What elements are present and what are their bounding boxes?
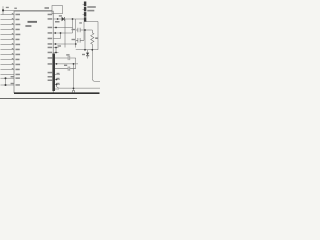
capacitor C8 row 69.5 [55, 67, 76, 71]
vertical rail x=72.5 [72, 19, 74, 33]
connector stubs [55, 75, 60, 90]
label near cap C8 [64, 65, 67, 66]
junction dot x85 row49.8 [84, 49, 86, 51]
connector pin ticks [83, 5, 84, 15]
wire pin 3 [1, 24, 15, 26]
wire vertical x=56 [55, 48, 57, 53]
component box X1 top right [52, 6, 62, 14]
wire pin 4 [1, 29, 15, 31]
vertical x=75.75 lower [75, 58, 77, 69]
wire pin 14 [1, 77, 15, 79]
pin numbers left outside [12, 13, 13, 14]
diode D2 anode stub [87, 50, 89, 53]
IC U1 body [14, 11, 53, 93]
rounded corner exit right [92, 78, 100, 81]
wire row 64 [55, 63, 78, 65]
junction dot row19 pre-diode [57, 18, 59, 20]
label right of top connector line2 [87, 10, 94, 12]
wire under top connector [86, 21, 98, 23]
junction dot row27.5 [55, 27, 57, 29]
wire pin 13 [1, 74, 15, 76]
wire row 49.8 far right [76, 49, 98, 51]
vertical rail x=75.75 [75, 19, 77, 48]
junction dot stub79.5 [56, 79, 58, 81]
wire row 33 [54, 32, 73, 34]
connector stub labels [57, 73, 60, 74]
capacitor C10 row 40.3 [76, 38, 84, 43]
junction dot x92.3 row49.8 [91, 49, 93, 51]
wire pin 12 [1, 69, 15, 71]
label R1 [95, 37, 98, 39]
vertical rail x=65 [64, 19, 66, 48]
pin name blobs left inside [16, 14, 21, 16]
wire top-left vertical stub [2, 6, 4, 14]
label above row 27.5 [55, 21, 60, 23]
junction dot row19 at 72.5 [72, 18, 74, 20]
junction dot row33 [60, 32, 62, 34]
junction dot x73.5 row88.4 [73, 88, 75, 90]
vertical x=84 below connector [83, 22, 85, 30]
wire pin 7 [1, 44, 15, 46]
resistor R1 zigzag [91, 30, 94, 50]
junction dot row52.5 [55, 52, 57, 54]
circuit schematic: RS232 interface around ADM202-style IC with SUB-D connector bars [0, 0, 100, 100]
label D1 [59, 15, 62, 16]
wire pin 6 [1, 39, 15, 41]
wire pin 10 [1, 59, 15, 61]
wire pin 11 [1, 64, 15, 66]
wire pin 5 [1, 34, 15, 36]
wire row 38.5 [54, 38, 61, 40]
junction dot row44b [75, 43, 77, 45]
bottom frame line [0, 98, 77, 100]
capacitor C7 row 58 [55, 56, 76, 60]
label C10 [72, 39, 76, 40]
junction dot x73.5 row63.9 [73, 63, 75, 65]
diode D2 triangle [86, 53, 89, 56]
diode D2 bar [86, 54, 89, 57]
wire row 30 far right [84, 29, 92, 31]
wire row 44 [54, 43, 76, 45]
junction dot row33b [54, 32, 56, 34]
wire pin 1 [1, 14, 15, 16]
terminal circle [72, 90, 74, 92]
wire pin 9 [1, 54, 15, 56]
label ADM202E [28, 21, 38, 23]
label D2 [82, 54, 85, 55]
vertical x=85 link [84, 30, 86, 50]
text blobs [6, 6, 98, 86]
diode D2 cathode stub [87, 56, 89, 58]
vertical right x=98 upper [97, 22, 99, 50]
wire row 52.5 [54, 52, 59, 54]
label C9 [72, 29, 76, 30]
vertical x=92.4 lower [91, 50, 93, 79]
wire top rail [3, 9, 52, 11]
junction dot row64 [56, 63, 58, 65]
junction dot pin15 [5, 84, 7, 86]
pin name blobs right inside [48, 14, 53, 16]
label row 45 [58, 45, 62, 46]
wire vertical link bottom-left [5, 78, 7, 85]
vertical x=84 mid [83, 30, 85, 40]
wire vertical x=60.5 [60, 33, 62, 39]
label near cap C7 [66, 54, 69, 55]
junction dot row47.5 [55, 47, 57, 49]
wire pin 8 [1, 49, 15, 51]
diode D1 triangle [62, 17, 65, 21]
junction dot x85 row30 [84, 29, 86, 31]
ground bus thick line [14, 92, 100, 94]
label small below row19 [79, 22, 82, 23]
junction dot row44 [55, 43, 57, 45]
wire pin 2 [1, 19, 15, 21]
diode D1 cathode bar [64, 17, 66, 21]
wire row 27.5 [54, 27, 73, 29]
vertical x=73.5 drop [73, 64, 75, 90]
wire row 47.5 [54, 47, 59, 49]
junction dot top left [2, 9, 4, 11]
connector bar top right (notched) [84, 2, 86, 7]
wire pin 15 [1, 84, 15, 86]
wire row 19 with diode D1 [54, 18, 84, 20]
label top wire [45, 7, 50, 9]
connector bar right of IC [52, 54, 55, 92]
junction dot stub84.5 [56, 84, 58, 86]
junction dot pin14 [5, 77, 7, 79]
capacitor C9 row 30 [76, 28, 84, 33]
label right of top connector line1 [87, 6, 96, 8]
rounded corner bottom right [56, 83, 100, 88]
